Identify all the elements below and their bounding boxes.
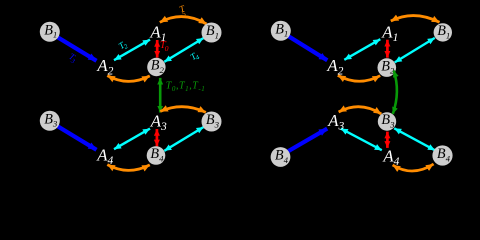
wire orange arc A1-B1 left-top [160, 17, 207, 24]
wire orange arc A1-B1 right-top [391, 16, 440, 23]
wire cyan B2-B1 left-top [164, 38, 203, 62]
wire green B2-B3 right [393, 71, 397, 114]
wire red A1-B2 left-top [156, 40, 159, 58]
node B2 right-top [378, 58, 397, 77]
label T3 blue [66, 51, 79, 66]
node B4 left-bottom [147, 146, 166, 165]
wire orange arc A2-B2 left-top [107, 76, 150, 82]
node A1 right [381, 22, 398, 44]
node B3 right-bottom [378, 112, 396, 131]
wire cyan B4-B3 left-bottom [164, 127, 203, 151]
node B4 right-bottom-right [432, 145, 452, 165]
node B3 left-bottom-right [202, 112, 222, 132]
node A3 left [150, 112, 167, 134]
node A2 right [326, 56, 343, 78]
wire cyan B2-B1 right-top [395, 38, 435, 63]
wire cyan A2-A1 right-top [344, 39, 380, 60]
node B2 left-top [147, 58, 165, 77]
wire orange arc A4-B4 right-bottom [393, 164, 434, 171]
wire blue B3-A4 left-bottom [58, 126, 97, 150]
wire orange arc A2-B2 right-top [338, 75, 380, 81]
wire green B2-A3 left [159, 78, 162, 113]
wire red A3-B4 left-bottom [156, 129, 159, 146]
node B1 right-top-left [271, 21, 291, 41]
label T2 cyan [117, 38, 130, 53]
node B4 right-bottom-left [271, 147, 291, 167]
node B1 left-top-right [202, 23, 222, 43]
node A1 left [149, 23, 166, 45]
wire orange arc A3-B3 right-bottom [339, 107, 382, 114]
wire cyan A2-A1 left-top [114, 40, 150, 61]
label T4 cyan [188, 49, 201, 64]
node B3 left-bottom-left [40, 111, 60, 131]
wire blue B1-A2 right-top [288, 36, 327, 60]
node A4 right [382, 147, 399, 169]
label T5 orange [178, 3, 189, 19]
node A3 right [327, 111, 344, 133]
label T0,T1,T-1 green [166, 80, 206, 93]
wire blue B1-A2 left-top [58, 37, 97, 61]
wire blue B4-A3 right-bottom [288, 129, 327, 152]
wire red B3-A4 right-bottom [386, 132, 389, 148]
node B1 left-top-left [40, 22, 60, 42]
wire cyan A4-A3 left-bottom [114, 129, 150, 150]
node A2 left [96, 56, 113, 78]
wire orange arc A3-B3 left-bottom [160, 107, 206, 113]
wire cyan A3-A4 right-bottom [341, 129, 382, 151]
wire cyan B3-B4 right-bottom [394, 128, 435, 150]
wire red A1-B2 right-top [386, 40, 389, 58]
node B1 right-top-right [434, 23, 452, 42]
wire orange arc A4-B4 left-bottom [107, 165, 150, 171]
node A4 left [96, 145, 113, 167]
label T0 red [160, 40, 169, 53]
